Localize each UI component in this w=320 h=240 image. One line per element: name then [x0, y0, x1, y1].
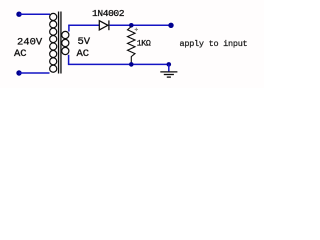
svg-text:1KΩ: 1KΩ [137, 39, 151, 48]
terminal dot: 240V input bottom [16, 70, 21, 75]
ground [160, 72, 177, 77]
wire: bottom-left input to primary [19, 72, 50, 74]
wire: secondary bottom stub [68, 55, 70, 65]
wire: diode cathode to output [110, 24, 171, 26]
node marker + [135, 28, 138, 31]
svg-text:apply to input: apply to input [180, 39, 248, 49]
transformer T1 core [58, 12, 62, 74]
junction dot: resistor bottom [129, 62, 134, 67]
svg-text:AC: AC [77, 48, 90, 60]
terminal dot: output [168, 23, 173, 28]
wire: secondary top stub [68, 25, 70, 31]
wire: top rail to diode anode [68, 24, 99, 26]
svg-text:5V: 5V [78, 36, 91, 48]
svg-text:240V: 240V [17, 36, 43, 48]
transformer T1 primary winding [50, 13, 57, 72]
diode D1 1N4002 [99, 20, 109, 30]
wire: ground stub [168, 64, 170, 71]
wire: bottom rail [68, 63, 169, 65]
junction dot: diode/resistor node [129, 23, 134, 28]
svg-text:1N4002: 1N4002 [92, 8, 125, 19]
terminal dot: 240V input top [16, 12, 21, 17]
wire: top-left input to primary [19, 13, 50, 15]
transformer T1 secondary winding [62, 31, 69, 54]
svg-text:AC: AC [14, 48, 27, 60]
resistor R1 [128, 27, 136, 65]
junction dot: ground node [167, 62, 172, 67]
